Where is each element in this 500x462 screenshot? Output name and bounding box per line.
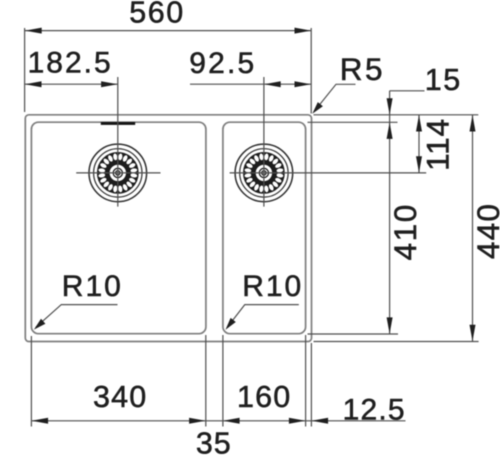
svg-text:340: 340 [93, 380, 148, 414]
dim 560 [25, 30, 311, 32]
svg-text:440: 440 [470, 203, 500, 259]
svg-text:182.5: 182.5 [28, 46, 113, 79]
dim 440 [472, 115, 474, 342]
right bowl 160x410 [223, 122, 306, 334]
sink outer rim 560x440 [25, 115, 311, 342]
svg-text:560: 560 [129, 0, 184, 30]
ext line outer right edge [310, 28, 312, 114]
ext line outer top right [314, 114, 479, 116]
dim 182.5 [25, 83, 118, 85]
ext line outer left edge [24, 28, 26, 112]
svg-text:R10: R10 [62, 270, 123, 303]
centerline left drain horizontal [76, 172, 160, 174]
svg-text:114: 114 [419, 118, 455, 171]
svg-text:35: 35 [196, 427, 232, 461]
centerline right drain horizontal / ext for dim 114 [230, 172, 427, 174]
dim 114 [418, 115, 420, 173]
ext line bowl top right [308, 121, 398, 123]
leader R10 right bowl corner [227, 305, 299, 328]
dim chain 340 35 160 12.5 [31, 420, 405, 422]
svg-text:R5: R5 [340, 51, 385, 87]
svg-text:92.5: 92.5 [189, 47, 256, 80]
drain strainer left bowl [89, 144, 147, 202]
dim 15 tail [390, 90, 425, 92]
dim 92.5 [190, 83, 311, 85]
leader R5 to outer rim corner [314, 84, 356, 112]
ext line bowl bottom right [308, 333, 399, 335]
drain strainer right bowl [235, 144, 293, 202]
overflow slot mark [101, 122, 135, 125]
svg-text:160: 160 [237, 380, 292, 414]
leader R10 left bowl corner [36, 305, 118, 328]
ext line left bowl right bottom [205, 335, 207, 427]
svg-text:410: 410 [387, 203, 423, 260]
svg-text:12.5: 12.5 [343, 394, 406, 427]
centerline left drain vertical / ext for dim 182.5 [117, 77, 119, 207]
svg-text:15: 15 [425, 63, 462, 97]
centerline right drain vertical / ext for dim 92.5 [263, 77, 265, 207]
svg-text:R10: R10 [242, 270, 303, 303]
ext line outer right bottom [310, 343, 312, 427]
ext line outer bottom right [314, 341, 479, 343]
ext line right bowl right bottom [305, 335, 307, 427]
ext line left bowl left bottom [30, 336, 32, 427]
ext line right bowl left bottom [222, 335, 224, 427]
dim 15 and dim 410 line [389, 91, 391, 334]
left bowl 340x410 [31, 122, 206, 334]
